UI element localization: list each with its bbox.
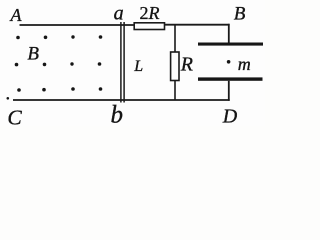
wire top rail right segment [164, 24, 230, 26]
rod ab right line [123, 22, 125, 103]
wire from top rail down to resistor R [174, 25, 176, 53]
charged ball m [227, 60, 231, 64]
rod ab left line [120, 22, 122, 103]
resistor R [171, 52, 179, 81]
svg-text:a: a [114, 2, 124, 24]
svg-text:L: L [133, 58, 143, 75]
field dot near C corner [7, 97, 10, 100]
wire top rail left segment [20, 24, 135, 26]
svg-text:R: R [180, 53, 193, 75]
svg-text:A: A [10, 5, 23, 25]
svg-text:B: B [27, 43, 39, 64]
wire from capacitor bottom plate down to bottom rail [228, 81, 230, 101]
field dots B row 3 [17, 87, 102, 92]
svg-text:B: B [234, 4, 246, 25]
capacitor bottom plate [198, 77, 263, 80]
wire bottom rail [13, 99, 230, 101]
wire from resistor R down to bottom rail [174, 81, 176, 101]
field dots B row 1 [16, 35, 102, 39]
field dots B row 2 [15, 62, 102, 66]
svg-text:b: b [111, 102, 124, 126]
svg-text:m: m [238, 54, 251, 74]
svg-text:C: C [7, 106, 22, 127]
capacitor top plate [198, 43, 263, 46]
resistor 2R [134, 23, 164, 30]
wire from top rail down to capacitor top plate [228, 24, 230, 44]
svg-text:D: D [222, 105, 238, 126]
svg-text:2R: 2R [140, 3, 160, 23]
